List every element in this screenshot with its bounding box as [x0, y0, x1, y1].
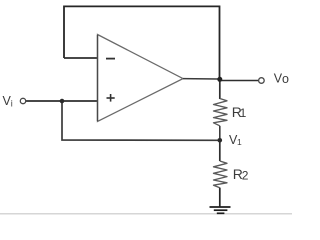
svg-text:o: o	[282, 72, 289, 86]
svg-text:1: 1	[237, 137, 242, 147]
svg-text:2: 2	[242, 168, 249, 182]
svg-text:i: i	[11, 98, 13, 108]
svg-text:1: 1	[240, 106, 247, 120]
